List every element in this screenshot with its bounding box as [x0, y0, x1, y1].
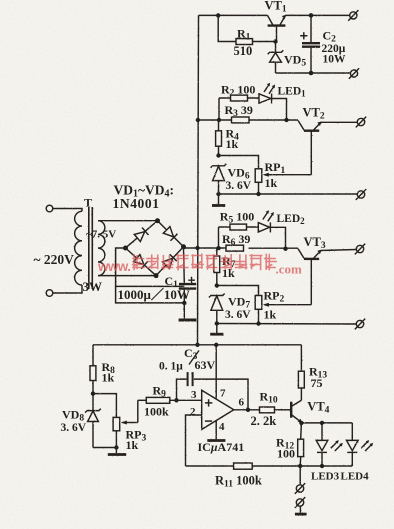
transformer T secondary — [98, 221, 105, 276]
wire pin4 to ground — [215, 421, 217, 440]
wire top rail channel1 — [199, 14, 350, 16]
node R7/VD7/RP2 junction — [215, 283, 219, 287]
wire R5-R6 stub — [218, 227, 220, 248]
terminal output1- — [349, 68, 359, 79]
node R2/R3/R4 junction — [217, 118, 221, 122]
terminal output1+ — [348, 10, 358, 21]
transistor VT3 — [298, 249, 322, 305]
watermark www.hangzhou text — [97, 254, 302, 277]
wire bottom-section top rail — [93, 344, 301, 346]
transistor VT1 — [268, 15, 287, 42]
resistor R3 — [232, 117, 250, 123]
ground channel2 — [212, 194, 225, 206]
wire bridge negative path — [116, 248, 185, 303]
wire VT2 emitter to terminal — [321, 121, 358, 123]
diode VD5 (zener) — [268, 42, 284, 74]
node VT4 emitter junction — [299, 421, 303, 425]
LED4 emission arrows — [361, 440, 373, 451]
svg-text:.com: .com — [276, 262, 303, 277]
LED LED3 — [316, 423, 328, 466]
wire to lower terminals — [299, 466, 301, 484]
node rail/R6 junction — [195, 246, 199, 250]
node LED3 bottom junction — [320, 464, 324, 468]
node top-wire/R1 stub junction — [216, 13, 220, 17]
resistor R1 — [236, 39, 276, 45]
node bridge right corner — [181, 244, 186, 249]
node VD7/ground junction — [215, 321, 219, 325]
resistor R10 — [260, 407, 291, 413]
LED LED2 — [258, 222, 285, 248]
op-amp U1 uA741 — [202, 390, 234, 429]
node C2 bottom junction — [309, 71, 314, 76]
node bridge top corner — [155, 218, 160, 223]
terminal mains input bottom — [46, 290, 53, 297]
node LED2/R6/VT3 junction — [283, 247, 287, 251]
capacitor C2 — [300, 15, 320, 73]
wire main positive rail (vertical) — [198, 15, 199, 344]
ground op-amp pin4 — [207, 439, 225, 442]
diode VD8 (zener) — [85, 394, 101, 448]
diode VD2 (top-right arm) — [163, 226, 177, 240]
resistor R6 — [226, 245, 244, 251]
wire R5 branch — [219, 226, 259, 228]
transformer T core — [89, 207, 93, 289]
resistor R5 — [230, 224, 247, 230]
terminal output3- — [355, 319, 365, 330]
terminal mains input top — [46, 205, 53, 212]
wire VT3 emitter to terminal — [321, 250, 357, 251]
wire pin7 supply — [215, 345, 217, 400]
capacitor C1 — [179, 247, 196, 318]
diode VD6 (zener) — [211, 164, 227, 194]
node R8/VD8/RP3 junction — [91, 391, 95, 395]
wire secondary top to bridge — [98, 220, 158, 222]
node LED3 top junction — [320, 421, 324, 425]
node main-rail/bottom-rail junction — [195, 343, 199, 347]
node R1/VD5/VT1-base junction — [273, 39, 277, 43]
node R4/VD6/RP1 junction — [216, 153, 220, 157]
LED1 emission arrows — [264, 83, 275, 94]
node VD6/ground junction — [216, 192, 220, 196]
resistor R11 — [186, 463, 301, 469]
wire emitter to LEDs — [301, 422, 352, 424]
wire to RP2 top — [217, 286, 259, 296]
ground C1 — [179, 319, 197, 322]
transistor VT2 — [298, 120, 322, 174]
resistor R2 — [231, 95, 248, 101]
wire R2-R3 stub — [218, 98, 220, 120]
wire pin2 feedback path — [186, 415, 202, 466]
node C1 negative lead junction — [182, 301, 186, 305]
wire R6 run from bridge — [184, 247, 299, 249]
ground bottom terminal — [295, 506, 307, 514]
wire R2 branch — [219, 97, 259, 99]
terminal output2+ — [356, 117, 366, 128]
label 63V with slash — [189, 351, 199, 365]
node RP3 bottom junction — [114, 445, 118, 449]
diode VD4 (bottom-right arm) — [162, 254, 176, 268]
wire VD8/RP3 bottom — [93, 447, 116, 449]
node bridge bottom corner — [154, 273, 159, 278]
resistor R8 — [90, 345, 96, 394]
wire channel1 lower — [276, 72, 350, 74]
transistor VT4 — [291, 400, 302, 423]
terminal aux bottom — [295, 497, 305, 508]
LED2 emission arrows — [263, 210, 274, 221]
ground VD8/RP3 — [108, 448, 126, 455]
node LED1/R3/VT2 junction — [284, 118, 288, 122]
LED LED1 — [259, 94, 287, 121]
op-amp plus input mark — [205, 399, 212, 406]
potentiometer RP3 — [113, 400, 138, 447]
node output/C3 junction — [246, 408, 250, 412]
diode VD7 (zener) — [209, 294, 225, 324]
resistor R7 — [214, 248, 220, 285]
ground channel3 — [210, 324, 223, 335]
node R11/R12 junction — [298, 464, 302, 468]
wire R1 stub — [218, 15, 236, 41]
terminal output3+ — [355, 244, 365, 255]
node RP1 bottom junction — [256, 192, 260, 196]
wire to RP1 top — [219, 156, 259, 169]
wire secondary bottom to bridge — [98, 275, 156, 277]
wire channel3 ground rail — [217, 323, 356, 326]
wire R8 to RP3 — [93, 394, 116, 418]
wire op-amp output — [234, 409, 260, 411]
transformer T primary — [53, 209, 82, 294]
wire R3 run — [198, 119, 298, 121]
resistor R4 — [216, 120, 222, 156]
diode VD1 (top-left arm) — [134, 227, 148, 241]
potentiometer RP2 — [255, 296, 311, 324]
terminal output2- — [356, 189, 366, 200]
node bridge left corner — [123, 246, 128, 251]
node C2 top junction — [309, 13, 314, 18]
terminal aux top — [295, 483, 305, 494]
LED3 emission arrows — [331, 440, 343, 451]
LED LED4 — [347, 423, 359, 466]
node RP2 bottom junction — [256, 321, 260, 325]
svg-text:www.: www. — [97, 259, 130, 274]
bridge rectifier diamond VD1~VD4 — [126, 221, 184, 276]
op-amp minus input mark — [205, 420, 212, 422]
capacitor C3 — [177, 372, 249, 410]
node R9/C3/pin3 junction — [174, 398, 178, 402]
resistor R9 — [138, 397, 202, 403]
resistor R12 — [298, 423, 304, 466]
node R5/R6/R7 junction — [216, 246, 220, 250]
node rail/R3 junction — [196, 118, 200, 122]
node pin7 supply junction — [214, 343, 218, 347]
diode VD3 (bottom-left arm) — [133, 254, 147, 268]
wire channel2 ground rail — [219, 193, 358, 195]
wire LED bottom rail — [300, 465, 352, 467]
potentiometer RP1 — [255, 169, 311, 194]
resistor R13 — [298, 345, 304, 401]
